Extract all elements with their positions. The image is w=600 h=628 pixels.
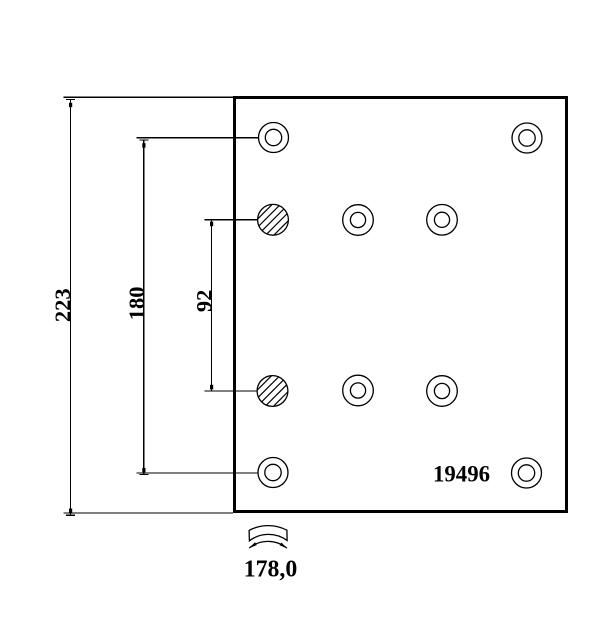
svg-text:178,0: 178,0 [244, 557, 298, 583]
arc-width symbol band [249, 526, 287, 541]
hole bottom-left [258, 458, 288, 488]
svg-text:223: 223 [50, 288, 75, 322]
dimension 223 [64, 97, 234, 515]
hole top-left [258, 123, 542, 489]
curved-arrow left head [249, 542, 256, 548]
svg-text:19496: 19496 [433, 462, 490, 487]
hole mid row3 left [343, 375, 374, 406]
svg-text:92: 92 [191, 290, 216, 313]
curved-arrow right head [280, 543, 287, 549]
hole mid row2 right [427, 205, 458, 236]
backing plate outline [235, 98, 567, 512]
dimension 92 [205, 220, 259, 391]
hole bottom-right [512, 458, 542, 488]
hatched hole row3 [240, 359, 304, 423]
arc-width curved dimension line [249, 541, 287, 548]
dimension 180 [137, 138, 259, 475]
hole mid row2 left [343, 205, 374, 236]
hatched hole row2 [241, 188, 305, 252]
svg-text:180: 180 [124, 287, 149, 321]
hole top-right [512, 123, 542, 153]
hole mid row3 right [427, 376, 458, 407]
